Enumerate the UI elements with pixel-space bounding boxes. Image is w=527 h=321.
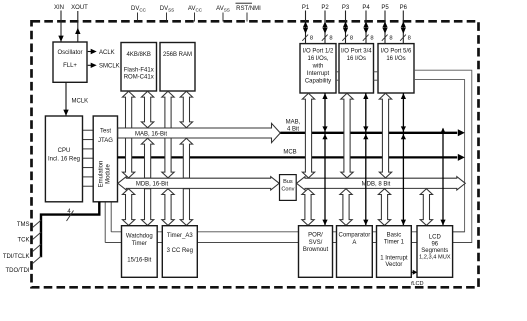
svg-text:Segments: Segments — [421, 248, 448, 254]
svg-text:FLL+: FLL+ — [63, 63, 77, 69]
svg-text:Conv: Conv — [281, 187, 294, 193]
port pin P4 with bidir arrows and x8 slash — [362, 5, 373, 44]
svg-text:Module: Module — [105, 164, 111, 184]
svg-text:JTAG: JTAG — [98, 138, 113, 144]
svg-text:I/O Port 3/4: I/O Port 3/4 — [341, 49, 372, 55]
bus arrow column x168.0 MAB to MDB down — [162, 138, 174, 178]
svg-text:ACLK: ACLK — [99, 50, 115, 56]
wire MCLK — [65, 82, 67, 115]
Test/JTAG and Emulation Module block — [93, 116, 117, 202]
bus arrow peripheral column x346 double MDB to block — [340, 189, 352, 226]
svg-text:MCB: MCB — [283, 150, 296, 156]
wire fLCD basic timer to LCD — [411, 271, 413, 273]
svg-text:P6: P6 — [400, 5, 408, 11]
svg-text:TMS: TMS — [17, 222, 30, 228]
svg-text:I/O Port 5/6: I/O Port 5/6 — [381, 49, 412, 55]
flash memory block 4KB/8KB — [121, 43, 157, 92]
I/O Port 3/4 block — [339, 44, 374, 93]
svg-text:with: with — [312, 64, 324, 70]
svg-text:TCK: TCK — [18, 238, 30, 244]
svg-text:P3: P3 — [342, 5, 350, 11]
wire emulation chain vertical outer — [104, 202, 106, 243]
wire AVSS stub — [222, 13, 224, 22]
bus MAB 16-bit — [118, 123, 280, 142]
svg-text:MAB, 16-Bit: MAB, 16-Bit — [135, 131, 167, 137]
arrow MCB right end — [458, 154, 465, 161]
wire port gap connector upper 2 — [374, 71, 379, 73]
svg-text:8: 8 — [350, 35, 353, 41]
svg-text:POR/: POR/ — [308, 232, 323, 238]
svg-text:MAB,: MAB, — [286, 120, 301, 126]
bus arrow memory column x128.6 up into memory — [122, 91, 134, 128]
svg-text:Timer: Timer — [132, 241, 147, 247]
bus MDB 16-bit — [118, 177, 279, 190]
svg-text:LCD: LCD — [429, 234, 442, 240]
bus converter block — [280, 175, 297, 201]
svg-text:AVSS: AVSS — [216, 6, 230, 12]
svg-text:fLCD: fLCD — [411, 281, 424, 287]
svg-text:256B RAM: 256B RAM — [163, 52, 192, 58]
svg-text:A: A — [352, 240, 356, 246]
arrow ACLK — [91, 49, 97, 54]
RST overline — [236, 2, 253, 4]
svg-text:8: 8 — [408, 35, 411, 41]
wire control line x365.8 port to peripheral with junction arrows — [363, 93, 368, 226]
Basic Timer 1 block — [377, 226, 412, 278]
bus MDB 8-bit — [297, 177, 466, 190]
arrow MCLK into CPU — [63, 110, 68, 116]
svg-text:16 I/Os,: 16 I/Os, — [307, 56, 328, 62]
port pin P1 with bidir arrows and x8 slash — [302, 5, 313, 44]
bus arrow peripheral column x426.4 double MDB to block — [420, 189, 432, 226]
svg-text:Oscillator: Oscillator — [57, 50, 82, 56]
wire RST/NMI stub — [246, 13, 248, 22]
I/O Port 5/6 block — [378, 44, 414, 93]
svg-text:SMCLK: SMCLK — [99, 64, 120, 70]
wire peripheral chain lower — [105, 242, 472, 244]
svg-text:Flash-F41x: Flash-F41x — [124, 68, 154, 74]
wire TCK tick — [32, 232, 41, 240]
arrow SMCLK — [91, 63, 97, 68]
bus arrow column x168.0 MDB to peripheral double — [162, 189, 174, 226]
bus arrow memory column x168.0 up into memory — [162, 91, 174, 128]
bus MAB 4-bit thick line — [280, 132, 457, 134]
svg-text:Test: Test — [100, 129, 111, 135]
wire control line MAB to LCD — [440, 128, 445, 226]
svg-text:Bus: Bus — [283, 179, 293, 185]
port pin P6 with bidir arrows and x8 slash — [400, 5, 411, 44]
bus MCB thick line — [118, 156, 458, 158]
svg-text:Comparator: Comparator — [339, 233, 371, 239]
svg-text:1,2,3,4 MUX: 1,2,3,4 MUX — [419, 254, 451, 260]
bus arrow column x128.6 MDB to peripheral double — [122, 189, 134, 226]
svg-text:Interrupt: Interrupt — [307, 71, 330, 77]
arrow XIN into oscillator — [58, 36, 63, 42]
svg-text:Timer 1: Timer 1 — [384, 240, 405, 246]
svg-text:Watchdog: Watchdog — [126, 234, 153, 240]
svg-text:RST/NMI: RST/NMI — [236, 6, 261, 12]
svg-text:Emulation: Emulation — [98, 161, 104, 188]
svg-text:AVCC: AVCC — [188, 6, 203, 12]
POR/SVS/Brownout block — [299, 226, 333, 278]
wire emulation chain vertical inner — [110, 202, 112, 232]
svg-text:Incl. 16 Reg: Incl. 16 Reg — [48, 156, 80, 162]
bus arrow memory column x147.6 double to MAB — [141, 91, 153, 127]
bus arrow I/O port column x385.5 double to MDB — [379, 93, 391, 178]
bus arrow I/O port column x347 double to MDB — [341, 93, 353, 178]
wire wrap outer from port 5/6 to LCD — [414, 70, 472, 242]
wire ACLK — [88, 51, 92, 53]
port pin P5 with bidir arrows and x8 slash — [381, 5, 392, 44]
svg-text:Vector: Vector — [385, 262, 402, 268]
wire peripheral chain upper — [111, 231, 464, 233]
LCD driver block — [417, 226, 453, 278]
wire XIN — [60, 11, 62, 42]
bus arrow column x128.6 MAB to MDB down — [122, 138, 134, 178]
svg-text:XOUT: XOUT — [71, 5, 88, 11]
svg-text:3 CC Reg: 3 CC Reg — [167, 248, 193, 254]
bus arrow column x186.4 MDB to MAB up — [180, 138, 192, 178]
arrow XOUT up — [75, 28, 80, 34]
wire port gap connector lower 1 — [336, 79, 339, 81]
bus arrow column x147.6 MDB to peripheral down — [141, 189, 153, 226]
bus arrow peripheral column x308 double MDB to block — [302, 189, 314, 226]
svg-text:8: 8 — [329, 35, 332, 41]
svg-text:1 Interrupt: 1 Interrupt — [380, 255, 408, 261]
wire wrap inner from port 5/6 to LCD — [414, 80, 465, 232]
wire control line x325 port to peripheral with junction arrows — [322, 93, 327, 226]
svg-text:8: 8 — [370, 35, 373, 41]
Timer_A3 block — [162, 226, 197, 278]
CPU to JTAG comb connector wires — [83, 130, 94, 186]
wire SMCLK — [88, 64, 92, 66]
svg-text:TDI/TCLK: TDI/TCLK — [3, 254, 30, 260]
svg-text:Basic: Basic — [387, 232, 402, 238]
oscillator FLL+ block U-OSC — [53, 42, 87, 82]
bus arrow I/O port column x308.5 double to MDB — [302, 93, 314, 178]
svg-text:MCLK: MCLK — [72, 99, 89, 105]
svg-text:Capability: Capability — [305, 79, 331, 85]
wire DVSS stub — [166, 13, 168, 22]
bus arrow memory column x186.4 double to MAB — [180, 91, 192, 127]
svg-text:DVCC: DVCC — [131, 6, 147, 12]
svg-text:CPU: CPU — [58, 148, 71, 154]
svg-text:4KB/8KB: 4KB/8KB — [127, 52, 151, 58]
svg-text:Timer_A3: Timer_A3 — [167, 233, 193, 239]
wire JTAG thick bus — [41, 202, 99, 257]
svg-text:P4: P4 — [362, 5, 370, 11]
svg-text:ROM-C41x: ROM-C41x — [124, 74, 154, 80]
I/O Port 1/2 block — [300, 44, 336, 93]
svg-text:15/16-Bit: 15/16-Bit — [127, 258, 151, 264]
svg-text:16 I/Os: 16 I/Os — [386, 56, 405, 62]
Comparator A block — [337, 226, 373, 278]
watchdog timer block — [122, 226, 158, 278]
svg-text:8: 8 — [310, 35, 313, 41]
svg-text:4 Bit: 4 Bit — [287, 127, 299, 133]
svg-text:XIN: XIN — [54, 5, 64, 11]
svg-text:MDB, 16-Bit: MDB, 16-Bit — [136, 182, 169, 188]
wire AVCC stub — [194, 13, 196, 22]
svg-text:SVS/: SVS/ — [309, 240, 323, 246]
svg-text:8: 8 — [389, 35, 392, 41]
wire TMS tick — [32, 220, 41, 228]
svg-text:P1: P1 — [302, 5, 310, 11]
bus arrow column x147.6 MDB to MAB up — [141, 138, 153, 178]
svg-text:I/O Port 1/2: I/O Port 1/2 — [303, 49, 334, 55]
port pin P3 with bidir arrows and x8 slash — [342, 5, 353, 44]
bus arrow column x186.4 MDB to peripheral down — [180, 189, 192, 226]
wire port gap connector lower 2 — [374, 79, 379, 81]
svg-text:TDO/TDI: TDO/TDI — [6, 268, 30, 274]
svg-text:P2: P2 — [321, 5, 329, 11]
port pin P2 with bidir arrows and x8 slash — [321, 5, 332, 44]
CPU block — [45, 116, 82, 202]
svg-text:Brownout: Brownout — [303, 247, 329, 253]
svg-text:16 I/Os: 16 I/Os — [347, 56, 366, 62]
wire TDI/TCLK tick — [32, 244, 41, 252]
bus arrow peripheral column x384.5 double MDB to block — [378, 189, 390, 226]
arrow MAB 4-bit right end — [458, 129, 465, 136]
wire control line x403.4 port to peripheral with junction arrows — [401, 93, 406, 226]
dashed device boundary border — [32, 21, 479, 287]
wire port gap connector upper 1 — [336, 71, 339, 73]
arrow fLCD — [413, 270, 418, 275]
wire XOUT — [77, 11, 79, 42]
svg-text:96: 96 — [431, 241, 438, 247]
JTAG bus width marker slash — [67, 211, 74, 222]
wire DVCC stub — [137, 13, 139, 22]
wire TDO/TDI tick — [32, 256, 41, 264]
svg-text:DVSS: DVSS — [160, 6, 174, 12]
svg-text:P5: P5 — [381, 5, 389, 11]
RAM block 256B — [160, 43, 195, 92]
